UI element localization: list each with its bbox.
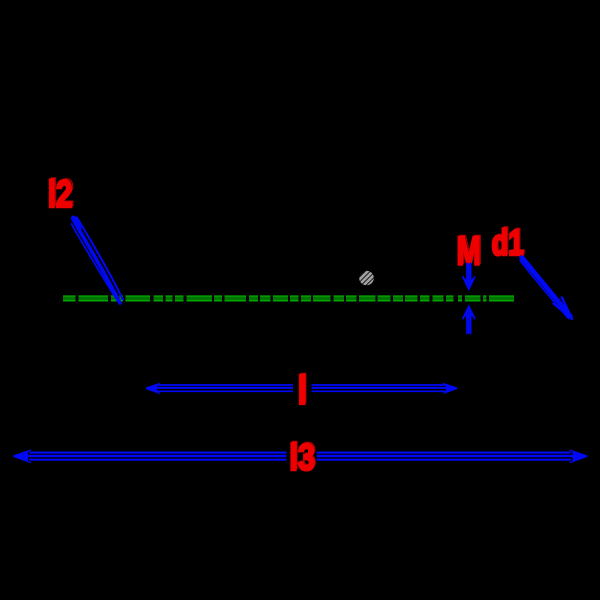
ray l2 (blue diagonal segment, sketchy) bbox=[72, 218, 124, 304]
left arrowhead of l bbox=[146, 383, 161, 393]
gray hatched dot (beam spot) bbox=[355, 260, 379, 304]
halo + label l bbox=[293, 366, 312, 413]
dash gaps in axis bbox=[76, 294, 490, 303]
right arrowhead of l bbox=[443, 383, 458, 393]
marker arrow above M point (points down at axis) bbox=[463, 264, 475, 290]
label d1 bbox=[492, 221, 525, 263]
left arrowhead of l3 bbox=[13, 450, 31, 463]
svg-text:l3: l3 bbox=[289, 438, 315, 479]
right arrowhead of l3 bbox=[570, 450, 588, 463]
label l2 bbox=[48, 172, 74, 216]
optical axis (green dash-dot line) bbox=[63, 294, 514, 303]
dimension arrow l (double-headed) bbox=[150, 385, 452, 391]
label M bbox=[457, 228, 483, 274]
svg-text:d1: d1 bbox=[492, 222, 524, 263]
halo + label l3 bbox=[287, 436, 317, 479]
ray d1 (blue diagonal arrow, sketchy) bbox=[520, 257, 572, 319]
marker arrow below M point (points up at axis) bbox=[463, 307, 475, 334]
dimension arrow l3 (double-headed, full width) bbox=[25, 453, 575, 460]
svg-text:l2: l2 bbox=[48, 174, 73, 216]
svg-text:l: l bbox=[298, 367, 307, 412]
